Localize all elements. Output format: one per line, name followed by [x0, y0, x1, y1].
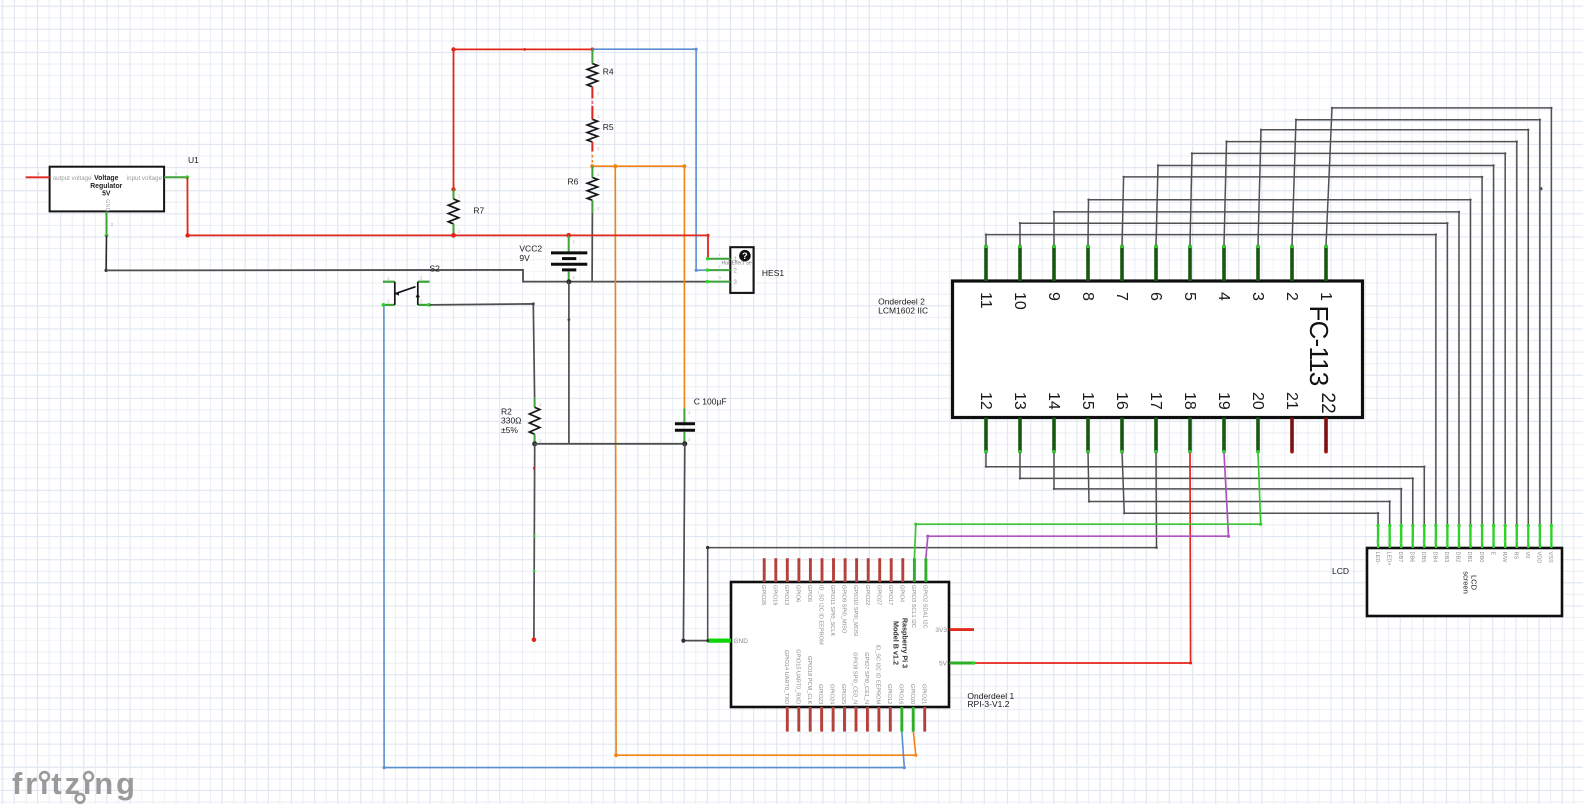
switch S2: [383, 276, 430, 305]
pin RPi GPIO7 SPI0_CE1_N (bottom stub): [866, 707, 869, 732]
pin FC-113 10 (top stub): [1018, 246, 1022, 282]
pin RPi GPIO8 SPI0_CE0_N (bottom stub): [855, 707, 858, 732]
pin LCD VDD (green stub): [1539, 525, 1541, 548]
svg-text:2: 2: [111, 222, 114, 227]
pin FC-113 20 (bottom stub): [1256, 418, 1260, 453]
wire VCC rail horizontal (red): [188, 234, 708, 236]
pin FC-113 14 (bottom stub): [1052, 418, 1056, 453]
wire FC-113 pin 7 to LCD (gray): [1122, 177, 1482, 525]
svg-text:VSS: VSS: [1547, 552, 1553, 563]
pin HES1 1 (green stub): [707, 258, 730, 260]
svg-text:15: 15: [1387, 540, 1392, 545]
wire FC-113 pin 9 to LCD (gray): [1054, 212, 1459, 525]
pin FC-113 8 (top stub): [1086, 246, 1090, 282]
svg-text:DB5: DB5: [1420, 552, 1426, 563]
wire FC-113 pin 4 to LCD (gray): [1224, 142, 1517, 525]
svg-text:DB3: DB3: [1443, 552, 1449, 563]
resistor R7: [448, 189, 461, 235]
pin LCD LED- (green stub): [1377, 525, 1379, 548]
svg-text:22: 22: [1317, 393, 1338, 414]
Raspberry Pi 3 body (Onderdeel 1): [731, 582, 949, 707]
pin LCD DB3 (green stub): [1446, 525, 1448, 548]
svg-text:9: 9: [1045, 292, 1062, 301]
battery VCC2 9V: [551, 235, 587, 281]
svg-text:19: 19: [1215, 392, 1232, 410]
svg-text:R4: R4: [603, 66, 614, 76]
svg-text:GPIO2 SDA1 I2C: GPIO2 SDA1 I2C: [922, 585, 928, 629]
svg-text:2: 2: [1283, 292, 1300, 301]
svg-text:HES1: HES1: [762, 268, 784, 278]
pin LCD DB7 (green stub): [1400, 525, 1402, 548]
pin RPi ID_SC I2C ID EEPROM (bottom stub): [877, 707, 880, 732]
pin LCD DB5 (green stub): [1423, 525, 1425, 548]
svg-text:11: 11: [977, 292, 994, 309]
pin FC-113 11 (top stub): [984, 246, 988, 282]
pin FC-113 9 (top stub): [1052, 246, 1056, 282]
pin RPi GPIO2 SDA1 I2C (top stub): [924, 558, 927, 582]
svg-text:2: 2: [597, 146, 600, 151]
pin FC-113 19 (bottom stub): [1222, 418, 1226, 453]
svg-text:C 100µF: C 100µF: [694, 397, 727, 407]
svg-text:GPIO11 SPI0_SCLK: GPIO11 SPI0_SCLK: [829, 585, 835, 636]
svg-text:2: 2: [597, 91, 600, 96]
svg-text:13: 13: [1011, 392, 1028, 410]
pin RPi ID_SD I2C ID EEPROM (top stub): [821, 558, 824, 582]
wire FC-113 pin 17 to GND (gray): [708, 453, 1157, 641]
svg-text:LCD: LCD: [1332, 566, 1349, 576]
junction orange at 615: [613, 164, 617, 168]
svg-text:DB7: DB7: [1397, 552, 1403, 563]
svg-text:18: 18: [1181, 392, 1198, 410]
pin FC-113 1 (top stub): [1324, 246, 1328, 282]
svg-text:2: 2: [573, 275, 576, 280]
pin FC-113 18 (bottom stub): [1188, 418, 1192, 453]
svg-text:10: 10: [1444, 540, 1449, 545]
wire FC-113 pin 2 to LCD (gray): [1292, 120, 1540, 525]
wire FC-113 pin 10 to LCD (gray): [1020, 223, 1447, 525]
svg-text:12: 12: [977, 392, 994, 410]
pin RPi GPIO18 PCM_CLK (bottom stub): [809, 707, 812, 732]
svg-text:6: 6: [1147, 292, 1164, 301]
connector S2 pin1 bottom (green dot): [382, 303, 386, 307]
svg-text:fritzing: fritzing: [12, 766, 138, 801]
svg-text:S2: S2: [430, 264, 441, 274]
wire FC-113 pin 15 to LCD (gray): [1088, 453, 1390, 526]
svg-text:RS: RS: [1513, 552, 1519, 560]
resistor R4: [587, 49, 600, 98]
pin RPi GPIO15 UART0_RXD (bottom stub): [797, 707, 800, 732]
pin LCD LED+ (green stub): [1389, 525, 1391, 548]
pin RPi GPIO22 (top stub): [867, 558, 870, 582]
pin RPi GPIO10 SPI0_MOSI (top stub): [855, 558, 858, 582]
svg-text:V0: V0: [1524, 552, 1530, 559]
junction R7-rail (red): [451, 233, 456, 238]
pin RPi GPIO19 (top stub): [774, 558, 777, 582]
svg-text:3: 3: [37, 171, 40, 176]
pin FC-113 17 (bottom stub): [1154, 418, 1158, 453]
svg-text:GPIO17: GPIO17: [887, 585, 893, 605]
svg-text:GND: GND: [104, 199, 110, 211]
svg-text:1: 1: [688, 410, 691, 415]
wire capacitor to RPi GND (gray): [683, 444, 707, 641]
junction R2 bottom (black): [532, 441, 537, 446]
pin LCD V0 (green stub): [1527, 525, 1529, 548]
svg-text:Raspberry Pi 3: Raspberry Pi 3: [900, 618, 909, 668]
svg-text:5V: 5V: [102, 190, 111, 197]
wire U1 GND down (black): [105, 235, 107, 270]
capacitor C 100uF: [675, 408, 695, 444]
pin RPi GPIO20 (bottom stub): [912, 707, 915, 732]
wire rail to HES1 pin1 (red): [707, 235, 710, 258]
svg-text:3V3: 3V3: [935, 627, 947, 634]
pin RPi GPIO6 (top stub): [797, 558, 800, 582]
svg-text:GPIO18 PCM_CLK: GPIO18 PCM_CLK: [806, 656, 812, 704]
pin FC-113 3 (top stub): [1256, 246, 1260, 282]
wire blue S2 to RPi GPIO16: [384, 305, 904, 767]
svg-text:GPIO9 SPI0_MISO: GPIO9 SPI0_MISO: [841, 585, 847, 634]
pin LCD DB4 (green stub): [1435, 525, 1437, 548]
svg-text:GPIO6: GPIO6: [795, 585, 801, 602]
pin RPi GPIO11 SPI0_SCLK (top stub): [832, 558, 835, 582]
svg-text:VDD: VDD: [1536, 552, 1542, 564]
svg-text:LCM1602 IIC: LCM1602 IIC: [878, 305, 928, 315]
svg-text:1: 1: [597, 59, 600, 64]
pin RPi GND (green stub): [707, 638, 731, 642]
junction battery-rail (red): [566, 233, 571, 238]
wire FC-113 pin 3 to LCD (gray): [1258, 130, 1528, 525]
svg-text:GPIO14 UART0_TXD: GPIO14 UART0_TXD: [783, 650, 789, 704]
pin HES1 3 (green stub): [707, 281, 730, 283]
svg-text:GPIO19: GPIO19: [771, 585, 777, 605]
junction capacitor bottom (black): [682, 441, 687, 446]
svg-text:R/W: R/W: [1501, 552, 1507, 564]
svg-text:R5: R5: [603, 122, 614, 132]
junction battery minus (black): [566, 279, 571, 284]
svg-text:GPIO21: GPIO21: [920, 684, 926, 704]
svg-text:?: ?: [742, 251, 748, 261]
svg-text:2: 2: [539, 438, 542, 443]
wire battery minus down (gray): [568, 282, 570, 444]
svg-text:5: 5: [1181, 292, 1198, 301]
svg-text:Regulator: Regulator: [90, 183, 122, 190]
svg-text:GPIO27: GPIO27: [875, 585, 881, 605]
hall effect sensor HES1: [719, 247, 754, 293]
pin RPi GPIO14 UART0_TXD (bottom stub): [786, 707, 789, 732]
svg-text:DB6: DB6: [1409, 552, 1415, 563]
pin FC-113 4 (top stub): [1222, 246, 1226, 282]
wire FC-113 pin 16 to LCD (gray): [1122, 453, 1378, 526]
svg-text:R6: R6: [568, 177, 579, 187]
pin RPi GPIO24 (bottom stub): [832, 707, 835, 732]
pin U1 GND (green stub): [106, 211, 108, 235]
svg-text:GPIO25: GPIO25: [840, 684, 846, 704]
pin LCD DB1 (green stub): [1469, 525, 1471, 548]
pin HES1 2 (green stub): [707, 269, 730, 271]
wire orange down to RPi GPIO20: [615, 166, 916, 755]
pin RPi GPIO9 SPI0_MISO (top stub): [844, 558, 847, 582]
svg-text:2: 2: [420, 276, 423, 281]
svg-text:GPIO3 SCL1 I2C: GPIO3 SCL1 I2C: [910, 585, 916, 628]
svg-text:16: 16: [1113, 392, 1130, 410]
wire FC-113 pin 12 to LCD (gray): [986, 453, 1424, 526]
svg-text:2: 2: [458, 229, 461, 234]
svg-text:3: 3: [1249, 292, 1266, 301]
wire FC-113 pin 11 to LCD (gray): [986, 235, 1436, 525]
bendpoint on VDD wire: [1539, 187, 1542, 190]
svg-text:output voltage: output voltage: [53, 175, 92, 182]
svg-text:2: 2: [688, 437, 691, 442]
svg-text:GPIO8 SPI0_CE0_N: GPIO8 SPI0_CE0_N: [852, 652, 858, 704]
svg-text:RPI-3-V1.2: RPI-3-V1.2: [967, 699, 1009, 709]
pin FC-113 16 (bottom stub): [1120, 418, 1124, 453]
svg-text:FC-113: FC-113: [1304, 306, 1334, 386]
svg-text:1: 1: [539, 402, 542, 407]
svg-text:GPIO10 SPI0_MOSI: GPIO10 SPI0_MOSI: [852, 585, 858, 637]
pin LCD DB6 (green stub): [1412, 525, 1414, 548]
resistor R5: [587, 114, 600, 152]
svg-text:12: 12: [1421, 540, 1426, 545]
svg-text:DB1: DB1: [1466, 552, 1472, 563]
wire R4 to R5 (red): [591, 106, 593, 120]
svg-text:14: 14: [1398, 540, 1403, 545]
svg-text:Voltage: Voltage: [94, 175, 119, 182]
pin FC-113 12 (bottom stub): [984, 418, 988, 453]
svg-text:17: 17: [1147, 392, 1164, 410]
wire R6 to GND rail (gray): [591, 213, 593, 282]
svg-text:21: 21: [1283, 392, 1300, 410]
wire FC-113 pin 14 to LCD (gray): [1054, 453, 1401, 526]
pin FC-113 21 (bottom stub): [1290, 418, 1294, 453]
pin RPi GPIO17 (top stub): [890, 558, 893, 582]
wire GND net U1 to battery minus (gray): [106, 270, 707, 282]
svg-text:E: E: [1489, 552, 1495, 556]
pin LCD R/W (green stub): [1504, 525, 1506, 548]
svg-text:GPIO7 SPI0_CE1_N: GPIO7 SPI0_CE1_N: [863, 652, 869, 704]
pin FC-113 6 (top stub): [1154, 246, 1158, 282]
wire FC-113 pin 18 to RPi 5V (red): [974, 453, 1191, 664]
pin RPi GPIO5 (top stub): [809, 558, 812, 582]
LCD screen body: [1367, 548, 1562, 616]
wire R2 dangling down (gray): [533, 444, 536, 640]
junction cap-GND (black): [681, 639, 685, 643]
svg-text:DB2: DB2: [1455, 552, 1461, 563]
wire VCC top rail (red): [454, 48, 593, 50]
pin LCD VSS (green stub): [1550, 525, 1552, 548]
svg-text:20: 20: [1249, 392, 1266, 410]
pin LCD RS (green stub): [1516, 525, 1518, 548]
svg-text:1: 1: [387, 299, 390, 304]
pin LCD DB0 (green stub): [1481, 525, 1483, 548]
svg-text:7: 7: [1113, 292, 1130, 301]
svg-text:input voltage: input voltage: [127, 175, 163, 182]
wire FC-113 pin 13 to LCD (gray): [1020, 453, 1413, 526]
pin RPi 5V (green stub): [950, 662, 975, 665]
ratsnest dash R4-R5 (pink): [591, 101, 593, 104]
pin LCD DB2 (green stub): [1458, 525, 1460, 548]
svg-text:ID_SD I2C ID EEPROM: ID_SD I2C ID EEPROM: [818, 585, 824, 645]
pin FC-113 13 (bottom stub): [1018, 418, 1022, 453]
svg-text:±5%: ±5%: [501, 425, 518, 435]
svg-text:LED-: LED-: [1374, 552, 1380, 565]
pin FC-113 15 (bottom stub): [1086, 418, 1090, 453]
svg-text:ID_SC I2C ID EEPROM: ID_SC I2C ID EEPROM: [875, 645, 881, 705]
pin RPi 3V3 (red stub): [950, 628, 975, 631]
svg-text:5V: 5V: [939, 661, 948, 668]
resistor R2: [529, 398, 542, 444]
wire U1 input to VCC rail (red): [186, 177, 188, 235]
connector S2 pin2 bottom (green dot): [427, 303, 431, 307]
pin RPi GPIO13 (top stub): [786, 558, 789, 582]
pin RPi GPIO23 (bottom stub): [820, 707, 823, 732]
svg-text:9V: 9V: [519, 253, 530, 263]
wire end unconnected (red dot): [532, 638, 537, 643]
wire FC-113 pin 1 to LCD (gray): [1326, 108, 1551, 525]
wire orange R5/R6 node to capacitor: [592, 166, 684, 408]
pin LCD E (green stub): [1492, 525, 1494, 548]
wire FC-113 pin 8 to LCD (gray): [1088, 200, 1471, 525]
wire FC-113 pin 19 to RPi SDA (purple): [926, 453, 1229, 559]
pin RPi GPIO27 (top stub): [878, 558, 881, 582]
svg-text:1: 1: [573, 239, 576, 244]
svg-text:R7: R7: [473, 205, 484, 215]
svg-text:Model B v1.2: Model B v1.2: [891, 621, 900, 665]
svg-text:2: 2: [597, 206, 600, 211]
svg-text:4: 4: [1215, 292, 1232, 301]
svg-text:1: 1: [1317, 292, 1334, 301]
pin RPi GPIO4 (top stub): [901, 558, 904, 582]
svg-text:1: 1: [719, 252, 722, 257]
pin RPi GPIO16 (bottom stub): [900, 707, 903, 732]
wire top rail down to R7 (red): [453, 49, 455, 189]
pin FC-113 22 (bottom stub): [1324, 418, 1328, 453]
svg-text:16: 16: [1375, 540, 1380, 545]
wire FC-113 pin 6 to LCD (gray): [1156, 166, 1494, 526]
wire blue top from R4 node to HES1 pin2: [592, 49, 707, 270]
svg-text:1: 1: [175, 171, 178, 176]
resistor R6: [587, 166, 600, 213]
svg-text:1: 1: [597, 172, 600, 177]
svg-text:VCC2: VCC2: [519, 244, 542, 254]
svg-text:1: 1: [597, 114, 600, 119]
pin FC-113 2 (top stub): [1290, 246, 1294, 282]
pin U1 input voltage (green stub): [164, 176, 187, 178]
svg-text:13: 13: [1410, 540, 1415, 545]
IC FC-113 body (Onderdeel 2): [953, 281, 1363, 418]
svg-text:8: 8: [1079, 292, 1096, 301]
svg-text:GPIO16: GPIO16: [897, 684, 903, 704]
svg-text:14: 14: [1045, 392, 1062, 410]
pin RPi GPIO3 SCL1 I2C (top stub): [913, 558, 916, 582]
svg-text:GPIO23: GPIO23: [817, 684, 823, 704]
svg-text:DB4: DB4: [1432, 552, 1438, 563]
fritzing watermark: [12, 766, 138, 803]
pin RPi GPIO21 (bottom stub): [923, 707, 926, 732]
svg-text:GPIO24: GPIO24: [829, 684, 835, 704]
wire FC-113 pin 5 to LCD (gray): [1190, 153, 1505, 525]
svg-text:330Ω: 330Ω: [501, 415, 522, 425]
svg-text:GPIO26: GPIO26: [760, 585, 766, 605]
svg-text:GND: GND: [734, 638, 749, 645]
pin RPi GPIO26 (top stub): [763, 558, 766, 582]
svg-text:DB0: DB0: [1478, 552, 1484, 563]
ratsnest dash R5-R6 (orange): [591, 155, 593, 158]
wire S2 to R2 (gray): [430, 304, 535, 398]
svg-text:3: 3: [719, 275, 722, 280]
svg-text:2: 2: [420, 299, 423, 304]
svg-text:GPIO4: GPIO4: [898, 585, 904, 602]
wire R2 to capacitor (gray): [535, 443, 685, 445]
svg-text:1: 1: [458, 194, 461, 199]
wire FC-113 pin 20 to RPi SCL (green): [914, 453, 1260, 559]
svg-text:GPIO22: GPIO22: [864, 585, 870, 605]
wire U1 output voltage (red): [26, 176, 50, 178]
svg-text:GPIO13: GPIO13: [783, 585, 789, 605]
svg-text:GPIO15 UART0_RXD: GPIO15 UART0_RXD: [794, 649, 800, 704]
svg-text:15: 15: [1079, 392, 1096, 410]
svg-text:GPIO12: GPIO12: [886, 684, 892, 704]
pin FC-113 5 (top stub): [1188, 246, 1192, 282]
pin RPi GPIO25 (bottom stub): [843, 707, 846, 732]
svg-text:GPIO5: GPIO5: [806, 585, 812, 602]
pin RPi GPIO12 (bottom stub): [889, 707, 892, 732]
voltage regulator U1: [37, 167, 178, 227]
svg-text:LED+: LED+: [1385, 552, 1391, 566]
svg-text:screen: screen: [1462, 571, 1471, 594]
svg-text:GPIO20: GPIO20: [909, 684, 915, 704]
svg-text:1: 1: [387, 276, 390, 281]
svg-text:U1: U1: [188, 155, 199, 165]
pin FC-113 7 (top stub): [1120, 246, 1124, 282]
svg-text:10: 10: [1011, 292, 1028, 310]
